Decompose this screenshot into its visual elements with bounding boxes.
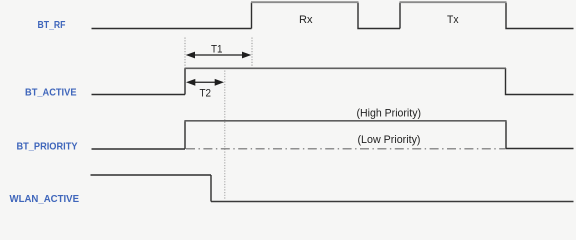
wire BT_RF Rx pulse top (251, 1, 359, 3)
guide dotted line at BT_ACTIVE rising edge x=185 (184, 38, 186, 67)
svg-text:Tx: Tx (447, 14, 459, 26)
svg-text:Rx: Rx (299, 14, 313, 26)
svg-text:T1: T1 (211, 44, 223, 56)
svg-text:(High Priority): (High Priority) (357, 108, 422, 120)
wire BT_PRIORITY low-priority dash-dot line (186, 148, 505, 150)
wire BT_RF low segments and edges (92, 3, 574, 29)
svg-text:BT_PRIORITY: BT_PRIORITY (17, 142, 78, 153)
guide dotted line at x=225 (T2 end) (224, 71, 226, 200)
svg-text:(Low Priority): (Low Priority) (358, 134, 421, 146)
guide dotted line at Rx rising edge x=252 (251, 38, 253, 67)
wire BT_ACTIVE high segment (185, 67, 507, 69)
wire BT_RF Tx pulse top (400, 1, 507, 3)
wire BT_PRIORITY high segment (185, 120, 507, 122)
svg-text:T2: T2 (200, 88, 212, 100)
svg-text:WLAN_ACTIVE: WLAN_ACTIVE (10, 194, 80, 205)
wire WLAN_ACTIVE low segment (211, 201, 574, 203)
dimension arrow T2 (186, 79, 224, 86)
svg-text:BT_ACTIVE: BT_ACTIVE (25, 88, 77, 99)
svg-text:BT_RF: BT_RF (38, 20, 66, 31)
wire BT_ACTIVE low segments and edges (92, 68, 574, 95)
wire BT_PRIORITY low segments and edges (92, 121, 574, 150)
dimension arrow T1 (186, 52, 252, 59)
wire WLAN_ACTIVE high segment and falling edge (91, 175, 212, 202)
